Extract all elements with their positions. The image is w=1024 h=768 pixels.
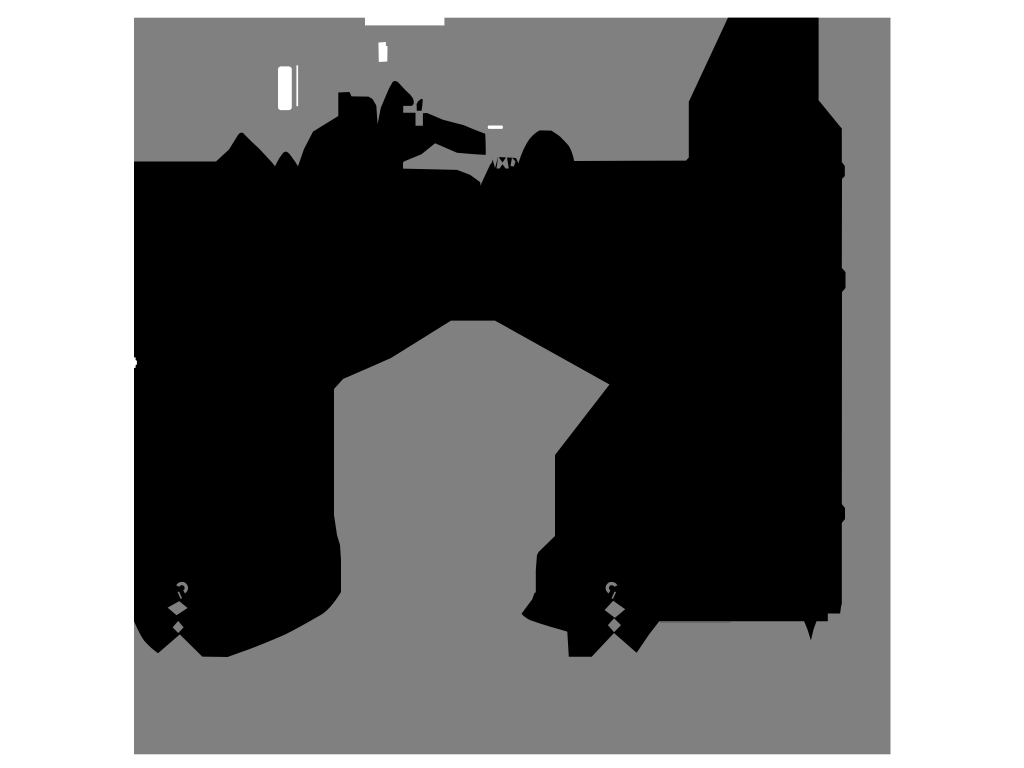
black thumb at statue xyxy=(417,99,423,111)
lantern 1 (left) xyxy=(168,582,188,633)
gray field xyxy=(134,18,891,755)
white cutouts xyxy=(365,17,444,25)
gray pocket under barrel xyxy=(403,136,494,186)
gray M zigzag gap xyxy=(497,156,509,168)
lantern 2 (right) xyxy=(605,582,626,632)
subtle darker seam line xyxy=(660,621,730,623)
main black silhouette mass xyxy=(134,18,846,657)
